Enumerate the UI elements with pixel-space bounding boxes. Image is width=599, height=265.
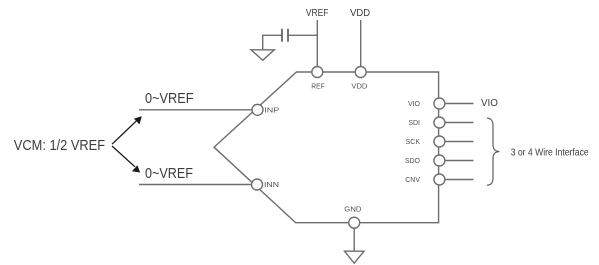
label 0~VREF lower	[145, 165, 193, 182]
wire stub SCK	[445, 141, 474, 143]
svg-text:SDO: SDO	[405, 158, 421, 165]
svg-text:0~VREF: 0~VREF	[145, 90, 194, 107]
svg-text:GND: GND	[344, 206, 361, 213]
pin SDO	[405, 155, 445, 166]
svg-text:INP: INP	[264, 107, 279, 114]
svg-text:0~VREF: 0~VREF	[145, 165, 193, 182]
wire VDD vertical	[360, 20, 362, 67]
wire VREF vertical	[316, 20, 318, 67]
svg-text:INN: INN	[264, 182, 279, 189]
label 0~VREF upper	[145, 90, 194, 107]
svg-text:VREF: VREF	[306, 7, 329, 19]
svg-text:SCK: SCK	[406, 139, 421, 146]
wire stub CNV	[445, 179, 474, 181]
svg-text:3 or 4 Wire Interface: 3 or 4 Wire Interface	[511, 148, 589, 159]
wire stub SDI	[445, 122, 474, 124]
pin INP	[252, 104, 280, 115]
label VIO external	[481, 97, 498, 109]
arrow to upper input	[112, 116, 142, 144]
wire INP input	[139, 109, 252, 111]
ground (GND pin)	[345, 251, 365, 263]
label VREF	[306, 7, 329, 19]
svg-text:SDI: SDI	[408, 120, 420, 127]
label 3 or 4 Wire Interface	[511, 148, 589, 159]
svg-text:VCM: 1/2 VREF: VCM: 1/2 VREF	[14, 137, 105, 154]
pin SDI	[408, 117, 445, 128]
wire stub SDO	[445, 160, 474, 162]
pin REF	[311, 67, 324, 91]
pin GND	[344, 206, 361, 228]
svg-text:REF: REF	[311, 84, 324, 91]
wire INN input	[139, 184, 252, 186]
pin SCK	[406, 136, 445, 147]
arrow to lower input	[112, 146, 140, 173]
svg-text:VIO: VIO	[481, 97, 498, 109]
brace 3-4 wire interface	[487, 118, 499, 185]
pin CNV	[405, 174, 445, 185]
svg-text:VDD: VDD	[350, 7, 370, 19]
wire capacitor branch	[263, 35, 282, 50]
wire stub VIO	[445, 103, 474, 105]
pin VDD	[351, 67, 367, 91]
svg-text:VDD: VDD	[351, 84, 367, 91]
ground (VREF decoupling)	[251, 50, 274, 61]
label VDD	[350, 7, 370, 19]
svg-text:CNV: CNV	[405, 177, 420, 184]
wire GND vertical	[353, 228, 355, 251]
capacitor C1	[282, 29, 317, 42]
label VCM: 1/2 VREF	[14, 137, 105, 154]
pin INN	[252, 179, 280, 190]
svg-text:VIO: VIO	[408, 101, 421, 108]
ADC body outline	[214, 72, 439, 223]
pin VIO	[408, 98, 445, 109]
